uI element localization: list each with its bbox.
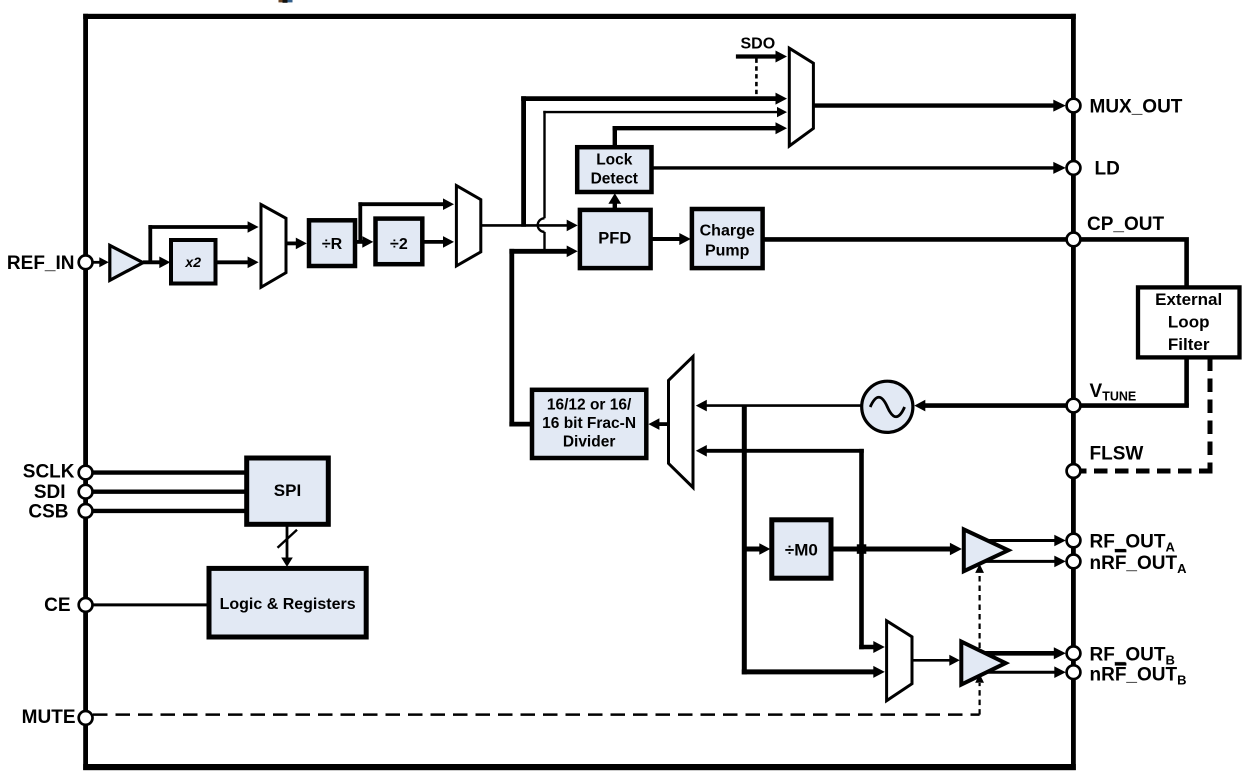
feedback mux M4 (669, 357, 694, 488)
wire M0 net to mux M4 input 2 and mux M5 input 1 (696, 445, 885, 653)
wire lock-detect branch to output mux M3 input 4 (613, 122, 787, 147)
label nRF_OUTA with overbar (1090, 549, 1188, 576)
svg-text:Charge: Charge (700, 223, 755, 240)
output mux M5 (887, 621, 912, 701)
label nRF_OUTB with overbar (1090, 663, 1187, 688)
wire buffer output to x2 doubler (143, 257, 170, 269)
svg-text:Logic & Registers: Logic & Registers (220, 596, 356, 613)
svg-text:Lock: Lock (596, 152, 633, 169)
wire reference monitor branch to output mux M3 input 2 (521, 93, 787, 227)
VCO (862, 381, 913, 432)
wire dashed mute control up to A buffer (975, 564, 984, 648)
PFD block (580, 210, 651, 268)
svg-text:LD: LD (1095, 159, 1120, 180)
wire B buffer to nRF_OUTB port (982, 666, 1066, 678)
svg-text:nRF_OUTB: nRF_OUTB (1090, 665, 1187, 688)
label MUTE (22, 707, 76, 728)
svg-text:Loop: Loop (1168, 313, 1210, 332)
svg-text:Detect: Detect (591, 171, 638, 188)
wire N-divider feedback to PFD input (509, 246, 577, 427)
label CSB (28, 501, 68, 522)
label CP_OUT (1087, 214, 1164, 235)
svg-text:Filter: Filter (1168, 335, 1210, 354)
SPI block (247, 458, 329, 524)
svg-text:REF_IN: REF_IN (7, 253, 75, 274)
junction dot M0 output node (857, 544, 867, 554)
label SDO (741, 35, 776, 52)
wire Lock Detect output to LD port (652, 162, 1066, 174)
svg-text:Pump: Pump (705, 242, 750, 259)
label RF_OUTA (1090, 532, 1176, 555)
Charge Pump block (692, 209, 763, 268)
port pin REF_IN (79, 255, 93, 269)
svg-text:CSB: CSB (28, 501, 68, 522)
svg-text:MUTE: MUTE (22, 707, 76, 728)
port pin LD (1067, 161, 1081, 175)
External Loop Filter block (1138, 287, 1240, 357)
wire A buffer to nRF_OUTA port (984, 556, 1066, 568)
wire B buffer to RF_OUTB port (984, 647, 1066, 659)
wire div2 output to mux M2 bottom input (422, 236, 454, 248)
label VTUNE (1090, 381, 1137, 404)
R divider (309, 220, 355, 266)
label MUX_OUT (1090, 96, 1183, 117)
port pin MUX_OUT (1067, 99, 1081, 113)
divide-by-2 (376, 219, 423, 265)
wire SDI to SPI (93, 490, 248, 494)
port pin RF_OUTA (1067, 534, 1081, 548)
svg-text:RF_OUTA: RF_OUTA (1090, 532, 1176, 555)
cropped text artifact at top (279, 0, 293, 3)
svg-text:16 bit Frac-N: 16 bit Frac-N (542, 415, 636, 432)
wire mux M1 output to R divider (286, 238, 307, 250)
port pin SDI (79, 485, 93, 499)
port pin MUTE (79, 711, 93, 725)
wire mux M2 output to PFD reference input (481, 220, 578, 232)
chip boundary rectangle (83, 14, 1076, 770)
wire VCO trunk down to M0 divider and mux M5 input 2 (742, 405, 885, 678)
svg-text:CP_OUT: CP_OUT (1087, 214, 1164, 235)
wire dashed FLSW to External Loop Filter (1081, 358, 1213, 472)
reference mux M1 (261, 205, 286, 288)
label CE (44, 595, 70, 616)
svg-text:External: External (1155, 290, 1222, 309)
label SDI (34, 482, 66, 503)
wire dashed MUTE line (93, 713, 980, 716)
wire dashed SDO tap (755, 59, 758, 97)
wire mux M3 output to MUX_OUT port (813, 100, 1065, 112)
label REF_IN (7, 253, 75, 274)
wire M0 divider output to RF_OUT A buffer (831, 543, 962, 555)
RF output buffer A (964, 529, 1009, 571)
reference mux M2 (456, 186, 480, 266)
port pin FLSW (1067, 464, 1081, 478)
svg-text:16/12 or 16/: 16/12 or 16/ (547, 397, 632, 414)
svg-text:Divider: Divider (563, 433, 616, 450)
frequency doubler x2 (171, 240, 216, 284)
wire doubler-bypass branch up to mux M1 top input (148, 221, 258, 262)
wire R divider output to div2 (355, 236, 373, 248)
wire CE to Logic and Registers (94, 603, 210, 606)
wire dashed mute control up to B buffer (975, 674, 984, 715)
wire Charge Pump output to CP_OUT port and External Loop Filter (763, 239, 1187, 287)
Frac-N divider block (532, 390, 646, 458)
input buffer amplifier (110, 245, 143, 280)
wire CSB to SPI (93, 509, 248, 513)
wire N-divider monitor branch to output mux M3 input 3 (with hop over reference line) (538, 107, 787, 250)
wire VCO output to mux M4 input 1 (696, 400, 862, 412)
wire mux M5 output to RF_OUT B buffer (912, 655, 960, 666)
port pin RF_OUTB (1067, 646, 1081, 660)
wire REF_IN port to input buffer (93, 257, 109, 267)
wire PFD to Lock Detect (608, 193, 621, 210)
wire A buffer to RF_OUTA port (987, 535, 1066, 547)
wire PFD output to Charge Pump (651, 233, 691, 245)
output mux M3 (789, 48, 813, 146)
wire SCLK to SPI (93, 470, 248, 474)
svg-text:FLSW: FLSW (1090, 443, 1144, 464)
svg-text:SDI: SDI (34, 482, 66, 503)
port pin nRF_OUTB (1067, 665, 1081, 679)
svg-text:SPI: SPI (274, 481, 301, 500)
RF output buffer B (961, 642, 1005, 685)
label RF_OUTB (1090, 644, 1175, 667)
port pin nRF_OUTA (1067, 555, 1081, 569)
wire x2 output to mux M1 bottom input (216, 257, 259, 269)
wire div2-bypass branch up to mux M2 top input (358, 198, 454, 242)
svg-text:SCLK: SCLK (23, 461, 75, 482)
svg-text:÷2: ÷2 (390, 236, 408, 253)
port pin SCLK (79, 466, 93, 480)
svg-text:nRF_OUTA: nRF_OUTA (1090, 553, 1188, 576)
label LD (1095, 159, 1120, 180)
svg-text:SDO: SDO (741, 35, 776, 52)
label SCLK (23, 461, 75, 482)
wire mux M4 output to N-divider (648, 418, 668, 430)
label FLSW (1090, 443, 1144, 464)
svg-text:PFD: PFD (598, 230, 631, 248)
port pin CE (79, 598, 93, 612)
svg-text:x2: x2 (184, 254, 201, 270)
wire SPI bus to Logic and Registers with slash (278, 524, 298, 567)
svg-text:÷M0: ÷M0 (785, 540, 818, 559)
port pin VTUNE (1067, 399, 1081, 413)
port pin CSB (79, 504, 93, 518)
wire SDO to output mux M3 input 1 (736, 51, 787, 63)
port pin CP_OUT (1067, 233, 1081, 247)
svg-text:CE: CE (44, 595, 70, 616)
M0 output divider (772, 520, 831, 578)
Lock Detect block (577, 147, 651, 192)
Logic and Registers block (209, 568, 366, 637)
svg-text:÷R: ÷R (322, 236, 343, 253)
wire VTUNE from External Loop Filter to VCO (914, 357, 1189, 411)
svg-text:MUX_OUT: MUX_OUT (1090, 96, 1183, 117)
